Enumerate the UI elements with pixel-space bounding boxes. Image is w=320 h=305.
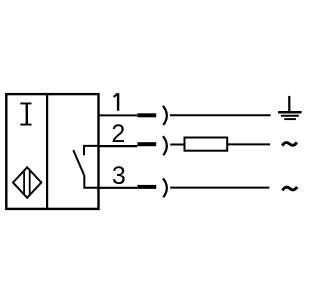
switch S1 bottom terminal (to pin 3): [84, 175, 98, 188]
earth ground bar 2: [281, 115, 299, 117]
earth ground bar 3: [284, 118, 296, 120]
wire pin1 right segment: [170, 114, 271, 116]
diamond inner line left: [23, 170, 25, 195]
connector socket 1 (arc): [163, 106, 167, 125]
sensor body divider: [46, 93, 48, 210]
sensor body outline U1: [6, 94, 98, 209]
label I (inductive): [20, 103, 31, 126]
pin number 1: [114, 93, 119, 111]
wire pin2 middle segment: [170, 144, 184, 146]
connector socket 2 (arc): [163, 136, 167, 155]
connector pin 2 (male dash): [137, 142, 156, 146]
wire pin2 left segment: [99, 145, 138, 147]
connector pin 3 (male dash): [137, 185, 156, 189]
switch S1 blade: [73, 150, 84, 175]
AC supply symbol row 3: [283, 187, 298, 191]
wire pin1 left segment: [99, 114, 138, 116]
wire pin2 right segment: [228, 143, 270, 145]
svg-text:2: 2: [111, 120, 125, 148]
connector pin 1 (male dash): [137, 113, 156, 117]
connector socket 3 (arc): [163, 178, 167, 197]
earth ground bar 1: [278, 111, 302, 114]
diamond inner line right: [29, 170, 31, 196]
switch S1 top terminal (from pin 2): [84, 146, 99, 155]
inductive sensor diamond symbol: [13, 167, 41, 198]
wire pin3 left segment: [99, 187, 138, 189]
AC supply symbol row 2: [282, 142, 297, 146]
svg-text:3: 3: [112, 162, 126, 190]
wire pin3 right segment: [170, 187, 269, 189]
earth ground stem: [288, 96, 290, 112]
load resistor R1: [185, 138, 228, 151]
